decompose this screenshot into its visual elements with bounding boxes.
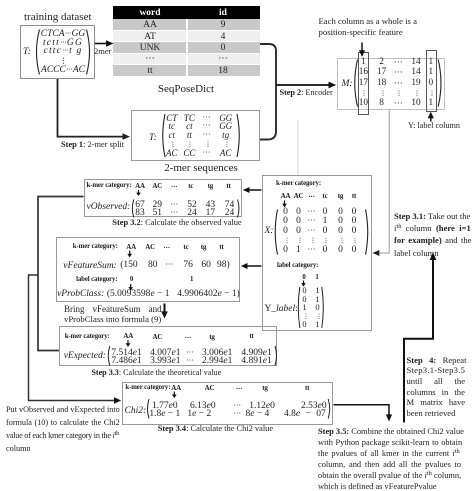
node Step 2 label: [280, 89, 333, 97]
node Step 3.5 text: [318, 428, 464, 436]
box 2-mer sequences: [131, 110, 260, 161]
table row AT 4: [113, 31, 260, 41]
node label category label vFeatureSum: [76, 277, 117, 284]
box Chi2: [122, 382, 334, 426]
wire X box to vObserved arrow: [248, 189, 262, 191]
node M matrix values: [361, 58, 366, 67]
node vExpected parens: [108, 346, 276, 366]
node vExpected header row: [123, 333, 133, 340]
node M label: [342, 80, 353, 90]
node Chi2 parens: [148, 399, 330, 419]
node k-mer category label Chi2: [125, 385, 170, 392]
node Y_label matrix parens: [298, 287, 323, 328]
wire vObserved to vExpected: [38, 197, 84, 351]
node vFeatureSum label: [63, 262, 116, 272]
node vObserved label: [87, 203, 131, 213]
wire branch to Chi2 arrow: [29, 275, 116, 401]
node Step 1 label: [61, 141, 124, 149]
node training matrix parens: [37, 30, 90, 75]
wire Y label column arrow: [430, 117, 432, 122]
node M matrix parens: [355, 60, 441, 107]
node vProbClass values: [107, 290, 170, 300]
node label category label: [277, 263, 318, 270]
box vObserved: [84, 179, 243, 218]
wire bring formula down arrow: [164, 304, 166, 313]
table row dots: [113, 54, 260, 64]
node each-column note: [319, 16, 417, 37]
node Chi2 values row2: [149, 410, 180, 420]
box training dataset T: [20, 25, 95, 79]
node Step 3.3 label: [91, 369, 221, 377]
wire Step 4 loop arrow: [404, 260, 433, 423]
node X label: [265, 227, 274, 237]
node X header row: [281, 193, 291, 200]
box M label column highlight: [426, 50, 437, 113]
node vFeatureSum values: [120, 261, 137, 271]
node Step 3.2 label: [112, 219, 241, 227]
node mini arrow Chi2 AA: [173, 392, 175, 396]
node X matrix parens: [275, 210, 368, 255]
node Chi2 header row: [171, 385, 181, 392]
table row UNK 0: [113, 42, 260, 53]
node 2-mer matrix rows: [166, 114, 177, 123]
node k-mer category label X: [276, 181, 321, 188]
wire note to M column arrow: [361, 43, 363, 52]
node label category values: [130, 277, 133, 284]
wire 2mer arrow: [95, 43, 106, 45]
node Y label column: [408, 122, 460, 130]
node Y_label header row: [302, 275, 305, 282]
node Y_label matrix values: [302, 286, 306, 295]
node Step 4 text: [407, 356, 467, 365]
node Step 3.1 text: [394, 212, 470, 221]
node vObserved parens: [132, 200, 239, 218]
box vFeatureSum: [56, 237, 240, 302]
table row AA 9: [113, 19, 260, 30]
table SeqPoseDict header: [113, 6, 260, 19]
node k-mer category label vObserved: [87, 183, 132, 190]
node k-mer category label vExpected: [65, 334, 110, 341]
node mini arrow X AA: [284, 201, 286, 205]
wire faint encoder trace: [297, 120, 299, 175]
node Chi2 label: [125, 407, 147, 417]
box X and Y_label: [262, 175, 372, 331]
node T label 2mer: [149, 134, 157, 144]
node T label: [23, 48, 31, 58]
node vExpected label: [64, 352, 106, 362]
node vObserved header row: [135, 183, 145, 190]
node training dataset label: [24, 12, 92, 23]
wire Chi2 to Step 3.5 arrow: [334, 405, 390, 415]
wire M to X box: [378, 110, 389, 254]
node X matrix values: [283, 208, 288, 218]
node vFeatureSum header row: [126, 244, 136, 251]
wire step1 path: [58, 79, 124, 137]
box vExpected: [59, 326, 277, 366]
node mini arrow vExpected AA: [127, 340, 129, 344]
node 2-mer matrix parens: [163, 114, 240, 157]
table column divider: [186, 19, 188, 75]
node mini arrow vFeatureSum AA: [129, 251, 131, 255]
node vExpected values row2: [111, 357, 141, 367]
node Y_label label: [265, 305, 298, 315]
node vProbClass label: [57, 290, 104, 300]
node vObserved values: [135, 201, 145, 211]
box M matrix: [337, 58, 445, 110]
wire step2 encoder arrow: [276, 84, 329, 86]
node Put-vObserved text: [6, 406, 120, 414]
box M first column highlight: [358, 52, 369, 115]
node vExpected values row1: [111, 349, 141, 359]
node mini arrow label category 0: [130, 284, 132, 288]
wire bracket table and 2mer to encoder: [260, 44, 276, 140]
node Bring text: [64, 305, 162, 314]
node 2mer label: [94, 47, 111, 56]
node mini arrow vObserved AA: [138, 190, 140, 194]
table row tt 18: [113, 65, 260, 76]
node mini arrow Y_label 0: [303, 281, 305, 284]
node SeqPoseDict label: [158, 84, 214, 95]
node 2-mer sequences label: [164, 163, 238, 174]
wire X box to vFeatureSum arrow: [246, 265, 262, 267]
node Step 3.4 label: [158, 425, 273, 433]
node Chi2 values row1: [152, 402, 178, 412]
node k-mer category label vFeatureSum: [73, 244, 118, 251]
node training matrix rows: [41, 30, 86, 40]
